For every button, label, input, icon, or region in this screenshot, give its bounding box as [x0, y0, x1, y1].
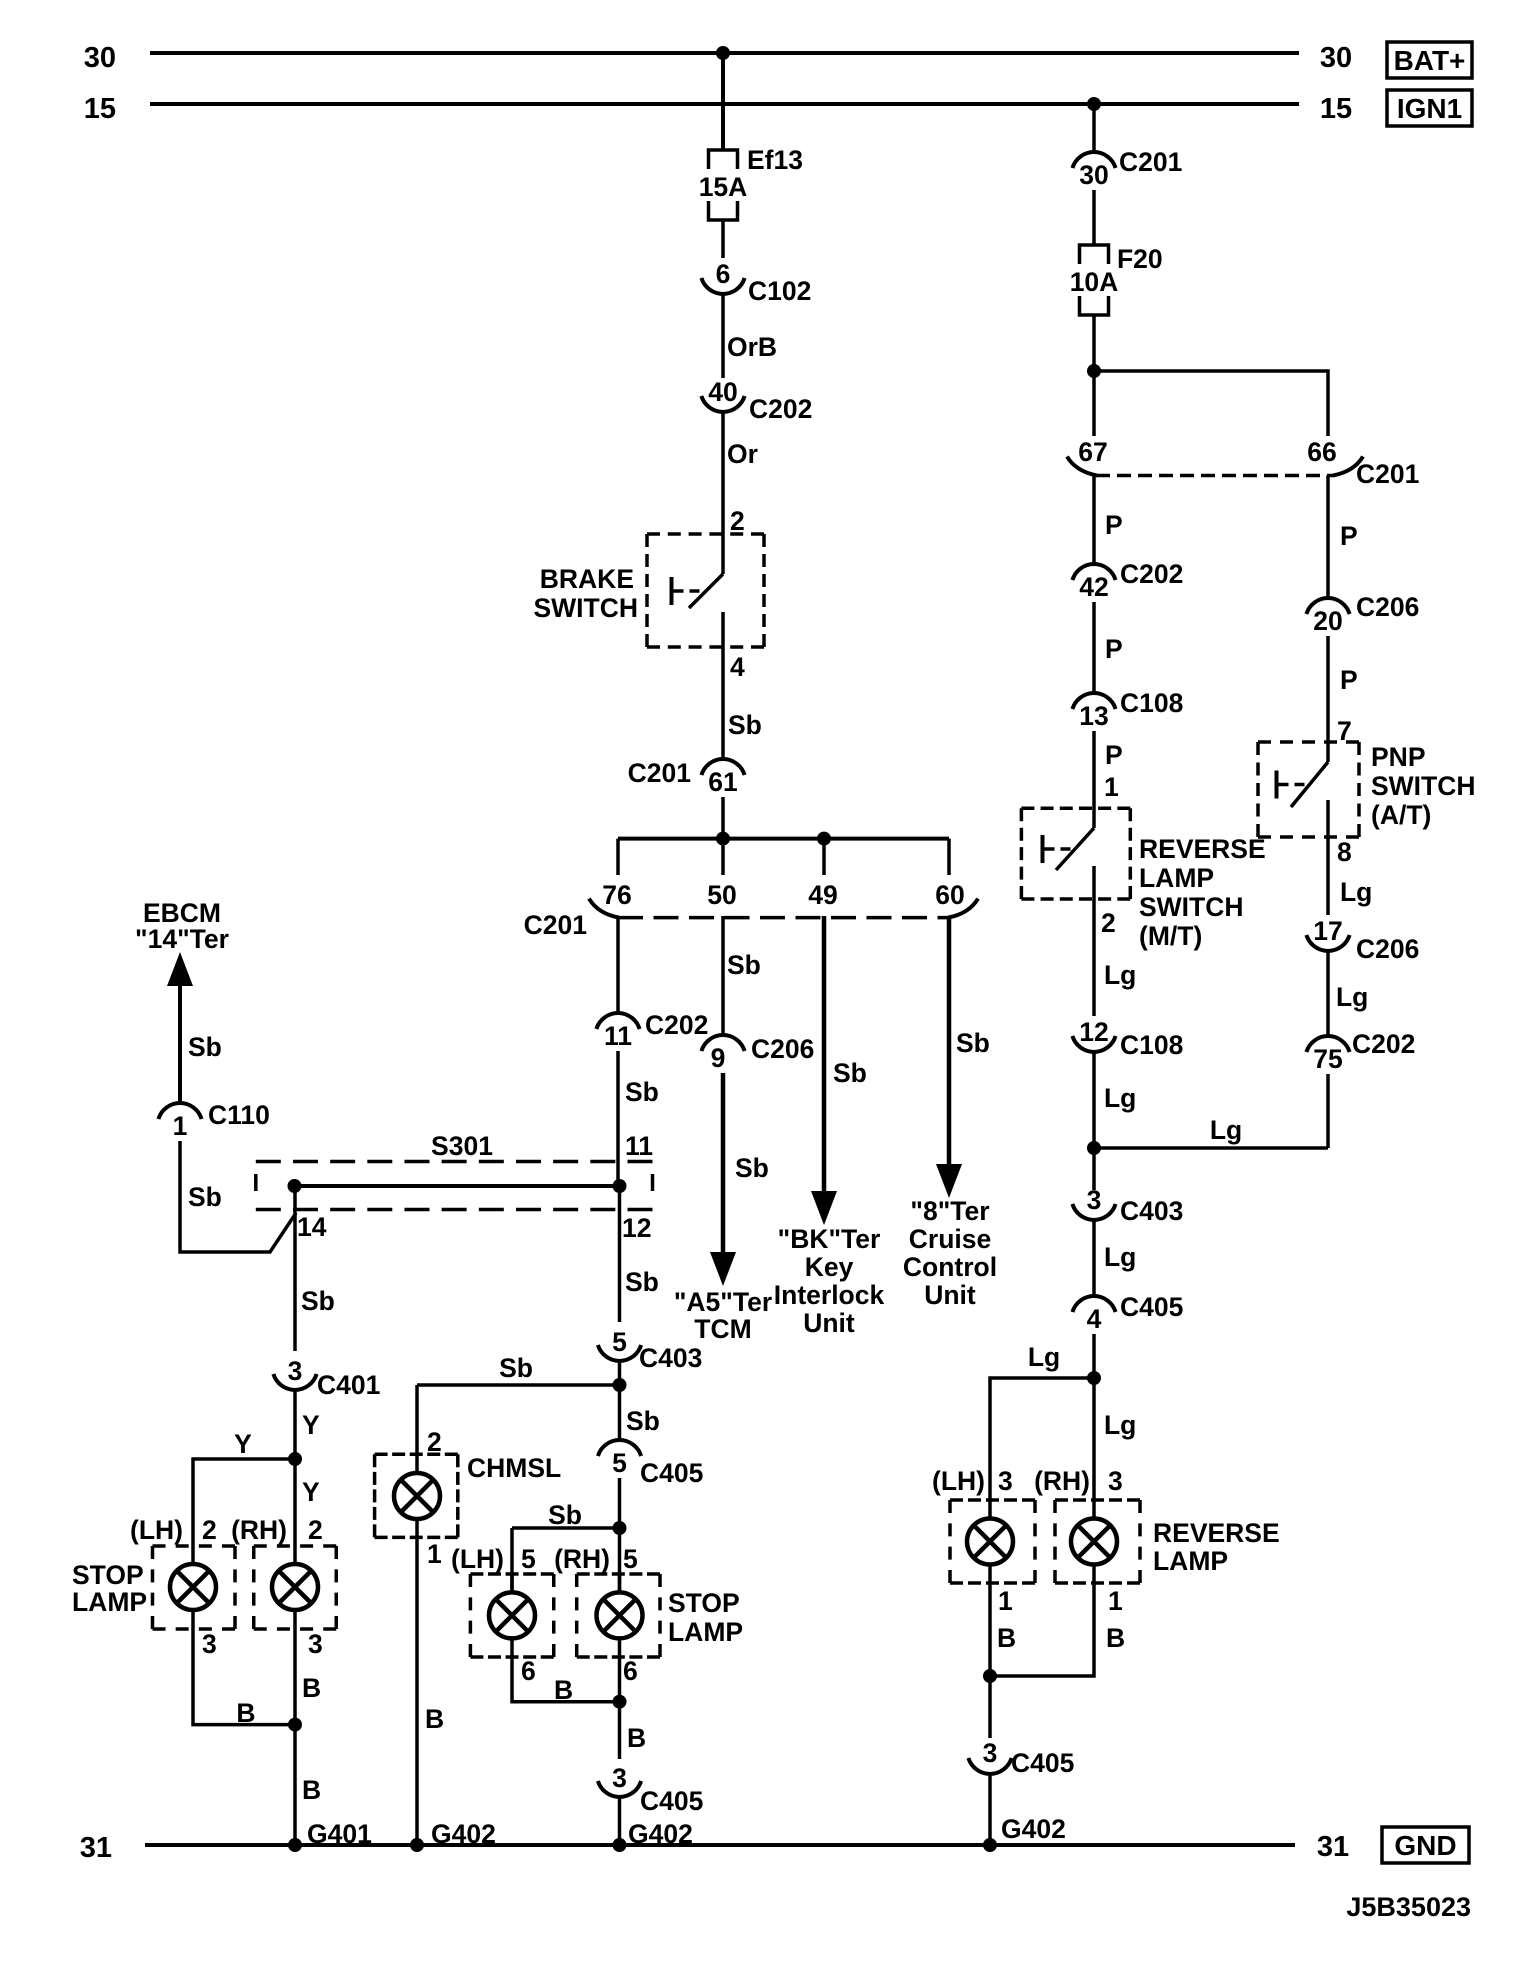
svg-text:3: 3	[308, 1629, 323, 1659]
connector C206 pin 17	[1306, 935, 1349, 951]
wire C405-5 to stop lamp junction	[618, 1478, 622, 1591]
connector C201 dashed body 76/50/49/60	[618, 916, 949, 920]
svg-text:6: 6	[716, 259, 731, 289]
svg-text:Cruise: Cruise	[909, 1224, 991, 1254]
svg-text:C102: C102	[748, 276, 811, 306]
wire Lg C108-12 to junction	[1092, 1052, 1096, 1190]
svg-text:2: 2	[202, 1515, 217, 1545]
svg-text:STOP: STOP	[668, 1588, 740, 1618]
svg-text:1: 1	[173, 1111, 188, 1141]
svg-text:Or: Or	[727, 439, 758, 469]
svg-text:B: B	[554, 1675, 573, 1705]
ground node G402 CHMSL	[410, 1838, 424, 1852]
connector C202 pin 11	[596, 1013, 639, 1029]
LH reverse lamp enclosure	[950, 1498, 1035, 1502]
splice S301 bar	[295, 1184, 620, 1188]
svg-text:61: 61	[708, 767, 737, 797]
svg-text:C110: C110	[208, 1100, 270, 1130]
svg-text:3: 3	[1108, 1466, 1123, 1496]
svg-text:(RH): (RH)	[554, 1544, 610, 1574]
svg-text:42: 42	[1079, 572, 1108, 602]
svg-text:Sb: Sb	[188, 1032, 222, 1062]
svg-text:C202: C202	[749, 394, 812, 424]
wire Sb C110 to splice S301 pin 14	[180, 1141, 296, 1252]
svg-text:C202: C202	[1120, 559, 1183, 589]
svg-text:12: 12	[622, 1213, 651, 1243]
svg-text:C403: C403	[1120, 1196, 1183, 1226]
wire Sb S301 pin 12 to C403 pin 5	[618, 1186, 622, 1322]
connector C405 pin 5	[598, 1440, 641, 1456]
svg-text:Unit: Unit	[924, 1280, 976, 1310]
svg-text:C201: C201	[628, 758, 691, 788]
svg-text:15: 15	[84, 93, 116, 125]
svg-text:3: 3	[1087, 1185, 1102, 1215]
RH rear stop lamp	[597, 1592, 643, 1638]
svg-text:3: 3	[202, 1629, 217, 1659]
svg-text:30: 30	[1320, 42, 1352, 74]
connector C405 pin 3 rear stop	[598, 1781, 641, 1797]
connector C401 pin 3	[273, 1374, 316, 1390]
svg-text:12: 12	[1079, 1017, 1108, 1047]
svg-text:Lg: Lg	[1210, 1115, 1242, 1145]
svg-text:2: 2	[730, 506, 745, 536]
wire Lg switch to C108 pin 12	[1092, 905, 1096, 1016]
svg-text:4: 4	[1087, 1304, 1102, 1334]
svg-text:(LH): (LH)	[451, 1544, 504, 1574]
wire B to ground G401	[293, 1725, 297, 1845]
svg-text:9: 9	[711, 1043, 726, 1073]
IGN1 terminal box	[1387, 90, 1472, 126]
junction on bus 15	[1087, 97, 1101, 111]
svg-text:(A/T): (A/T)	[1371, 800, 1431, 830]
wire Lg C202-75 to merge junction	[1326, 1074, 1330, 1148]
wire C403-5 to junction	[618, 1361, 622, 1440]
distribution bus above C201 multi-connector	[618, 837, 949, 841]
GND terminal box	[1382, 1827, 1469, 1863]
svg-text:Sb: Sb	[499, 1353, 533, 1383]
svg-text:B: B	[627, 1723, 646, 1753]
svg-text:8: 8	[1337, 837, 1352, 867]
svg-text:F20: F20	[1117, 244, 1163, 274]
svg-text:Lg: Lg	[1104, 1410, 1136, 1440]
svg-text:Lg: Lg	[1340, 877, 1372, 907]
stub wire to pin 49	[822, 839, 826, 875]
svg-text:P: P	[1105, 740, 1123, 770]
svg-text:Lg: Lg	[1104, 1083, 1136, 1113]
svg-text:"A5"Ter: "A5"Ter	[674, 1287, 772, 1317]
svg-text:"8"Ter: "8"Ter	[910, 1196, 989, 1226]
RH front stop lamp	[272, 1564, 318, 1610]
junction stop lamp branch	[613, 1521, 627, 1535]
svg-text:11: 11	[625, 1131, 653, 1161]
wire Sb brake switch to C201 pin 61	[721, 655, 725, 759]
wire P C202-42 to C108 pin 13	[1092, 602, 1096, 693]
PNP switch contacts	[1326, 742, 1330, 762]
svg-text:IGN1: IGN1	[1397, 93, 1462, 124]
svg-text:LAMP: LAMP	[1139, 863, 1214, 893]
svg-text:"BK"Ter: "BK"Ter	[778, 1224, 881, 1254]
splice S301 enclosure	[256, 1160, 653, 1164]
svg-text:STOP: STOP	[72, 1560, 144, 1590]
svg-text:(RH): (RH)	[231, 1515, 287, 1545]
connector C206 pin 20	[1306, 598, 1349, 614]
svg-text:PNP: PNP	[1371, 742, 1426, 772]
connector C201 pin 30	[1072, 152, 1115, 168]
svg-text:2: 2	[427, 1427, 442, 1457]
svg-text:Sb: Sb	[956, 1028, 990, 1058]
CHMSL lamp	[394, 1473, 440, 1519]
stub wire to pin 50	[721, 839, 725, 875]
wire B CHMSL to ground G402	[415, 1521, 419, 1845]
svg-text:C201: C201	[1119, 147, 1182, 177]
S301 left node	[288, 1179, 302, 1193]
svg-text:Sb: Sb	[188, 1182, 222, 1212]
wire OrB C102 to C202	[721, 294, 725, 378]
ground node G402 rear stop	[613, 1838, 627, 1852]
svg-text:C206: C206	[1356, 592, 1419, 622]
svg-text:OrB: OrB	[727, 332, 777, 362]
wire B LH rear stop lamp to merge	[512, 1657, 620, 1702]
svg-text:75: 75	[1313, 1044, 1342, 1074]
svg-text:Lg: Lg	[1104, 1242, 1136, 1272]
svg-text:15: 15	[1320, 93, 1352, 125]
svg-text:Y: Y	[302, 1477, 320, 1507]
svg-text:C108: C108	[1120, 1030, 1183, 1060]
wire C405-3 to ground G402 reverse	[988, 1774, 992, 1845]
wire P pin 67 to C202 pin 42	[1092, 476, 1096, 565]
LH reverse lamp	[967, 1519, 1013, 1565]
ground node G401	[288, 1838, 302, 1852]
svg-text:15A: 15A	[699, 172, 748, 202]
svg-text:20: 20	[1313, 606, 1342, 636]
LH front stop lamp enclosure	[153, 1544, 236, 1548]
svg-text:B: B	[302, 1775, 321, 1805]
svg-text:3: 3	[288, 1356, 303, 1386]
reverse lamp switch enclosure	[1021, 807, 1130, 811]
wire Sb S301 pin 14 to C401	[293, 1186, 297, 1351]
svg-text:C108: C108	[1120, 688, 1183, 718]
svg-text:5: 5	[612, 1448, 627, 1478]
svg-text:Sb: Sb	[735, 1153, 769, 1183]
junction at wire 49	[817, 832, 831, 846]
RH reverse lamp	[1071, 1519, 1117, 1565]
bus 15 IGN1 rail	[150, 102, 1299, 106]
svg-text:Sb: Sb	[727, 950, 761, 980]
svg-text:3: 3	[998, 1466, 1013, 1496]
connector C202 pin 40	[701, 396, 744, 412]
wire C405-3 to ground G402	[618, 1797, 622, 1845]
branch wire Y to LH front stop lamp	[193, 1459, 295, 1546]
wire P pin 66 to C206 pin 20	[1326, 476, 1330, 599]
wire Sb C202-11 to S301 pin 11	[616, 1051, 620, 1186]
svg-text:66: 66	[1307, 437, 1336, 467]
wire B RH rear stop lamp down	[618, 1657, 622, 1759]
svg-text:SWITCH: SWITCH	[1371, 771, 1476, 801]
svg-text:14: 14	[297, 1212, 327, 1242]
svg-text:Control: Control	[903, 1252, 997, 1282]
junction front stop lamps	[288, 1452, 302, 1466]
ground node G402 reverse	[983, 1838, 997, 1852]
connector C201 pin 61	[701, 759, 744, 775]
svg-text:C202: C202	[1352, 1029, 1415, 1059]
svg-text:10A: 10A	[1070, 267, 1119, 297]
wire P C206-20 to PNP switch	[1326, 636, 1330, 742]
svg-text:C206: C206	[1356, 934, 1419, 964]
svg-text:4: 4	[730, 652, 745, 682]
wire fuse F20 to split junction	[1092, 315, 1096, 371]
bus 30 BAT+ rail	[150, 51, 1299, 55]
svg-text:B: B	[425, 1704, 444, 1734]
wire stub to pin 67	[1092, 371, 1096, 436]
svg-text:17: 17	[1313, 916, 1342, 946]
connector C201 dashed body 67/66	[1096, 474, 1334, 478]
svg-text:C405: C405	[640, 1786, 703, 1816]
svg-text:2: 2	[308, 1515, 323, 1545]
svg-text:(LH): (LH)	[932, 1466, 985, 1496]
arrow to EBCM 14 terminal	[167, 952, 193, 986]
brake switch contacts	[721, 572, 725, 576]
junction on bus 30	[716, 46, 730, 60]
svg-text:(M/T): (M/T)	[1139, 921, 1202, 951]
wire bus15 to C201 pin 30	[1092, 104, 1096, 152]
connector C110 pin 1	[158, 1103, 201, 1119]
svg-text:30: 30	[1079, 160, 1108, 190]
svg-text:(RH): (RH)	[1034, 1466, 1090, 1496]
arrow to A5 terminal TCM	[710, 1252, 736, 1286]
connector C403 pin 3	[1072, 1204, 1115, 1220]
svg-text:C201: C201	[524, 910, 587, 940]
svg-text:P: P	[1340, 521, 1358, 551]
svg-text:C202: C202	[645, 1010, 708, 1040]
svg-text:REVERSE: REVERSE	[1153, 1518, 1280, 1548]
svg-text:5: 5	[521, 1544, 536, 1574]
branch wire Lg to LH reverse lamp	[990, 1378, 1094, 1500]
bus 31 GND rail	[145, 1843, 1295, 1847]
svg-text:1: 1	[1104, 772, 1119, 802]
svg-text:SWITCH: SWITCH	[1139, 892, 1244, 922]
junction M/T A/T merge	[1087, 1141, 1101, 1155]
branch wire Lg from C202 pin 75	[1094, 1146, 1328, 1150]
junction at wire 50	[716, 832, 730, 846]
wire Lg C206-17 to C202 pin 75	[1326, 951, 1330, 1036]
svg-text:C405: C405	[1011, 1748, 1074, 1778]
svg-text:60: 60	[935, 880, 964, 910]
svg-text:P: P	[1105, 510, 1123, 540]
svg-text:C405: C405	[1120, 1292, 1183, 1322]
svg-text:31: 31	[80, 1832, 112, 1864]
svg-text:TCM: TCM	[694, 1314, 751, 1344]
svg-text:Sb: Sb	[548, 1500, 582, 1530]
svg-text:(LH): (LH)	[130, 1515, 183, 1545]
svg-text:3: 3	[612, 1763, 627, 1793]
branch wire Sb to CHMSL	[417, 1383, 620, 1387]
connector C108 pin 13	[1072, 693, 1115, 709]
wire to LH rear stop lamp	[510, 1528, 514, 1591]
merge junction rear stop lamps	[613, 1695, 627, 1709]
svg-text:J5B35023: J5B35023	[1346, 1892, 1471, 1922]
wire C405-4 to reverse lamp junction	[1092, 1334, 1096, 1500]
svg-text:P: P	[1105, 634, 1123, 664]
branch wire Sb to LH stop lamp	[512, 1526, 620, 1530]
svg-text:Key: Key	[805, 1252, 854, 1282]
wire Sb EBCM arrow to C110	[178, 980, 182, 1103]
PNP switch enclosure	[1258, 740, 1359, 744]
svg-text:C405: C405	[640, 1458, 703, 1488]
svg-text:40: 40	[708, 377, 737, 407]
svg-text:30: 30	[84, 42, 116, 74]
svg-text:LAMP: LAMP	[72, 1587, 147, 1617]
connector C206 pin 9	[701, 1035, 744, 1051]
svg-text:5: 5	[612, 1327, 627, 1357]
RH rear stop lamp enclosure	[577, 1572, 660, 1576]
wire C201-61 to distribution node	[721, 797, 725, 839]
svg-text:1: 1	[1108, 1586, 1123, 1616]
brake switch enclosure	[647, 532, 764, 536]
wire Or C202 to brake switch pin 2	[721, 412, 725, 574]
svg-text:BAT+: BAT+	[1394, 45, 1466, 76]
svg-text:13: 13	[1079, 701, 1108, 731]
split junction for pins 67/66	[1087, 364, 1101, 378]
svg-text:Sb: Sb	[728, 710, 762, 740]
stub wire to pin 76	[616, 839, 620, 875]
S301 right node	[613, 1179, 627, 1193]
svg-text:B: B	[302, 1673, 321, 1703]
arrow to 8 terminal Cruise Control Unit	[936, 1164, 962, 1198]
svg-text:49: 49	[808, 880, 837, 910]
svg-text:LAMP: LAMP	[668, 1617, 743, 1647]
svg-text:C201: C201	[1356, 459, 1419, 489]
svg-text:SWITCH: SWITCH	[533, 593, 638, 623]
wire to pin 66 branch	[1094, 371, 1328, 436]
connector C405 pin 4	[1072, 1296, 1115, 1312]
svg-text:6: 6	[623, 1656, 638, 1686]
wire CHMSL branch down	[415, 1385, 419, 1471]
wire fuse Ef13 to C102	[721, 220, 725, 258]
svg-text:C206: C206	[751, 1034, 814, 1064]
BAT+ terminal box	[1387, 42, 1472, 78]
svg-text:B: B	[997, 1623, 1016, 1653]
wire B LH reverse lamp down	[988, 1583, 992, 1738]
svg-text:G402: G402	[1001, 1814, 1066, 1844]
svg-text:2: 2	[1101, 908, 1116, 938]
wire B RH reverse lamp to merge	[990, 1583, 1094, 1676]
svg-text:67: 67	[1078, 437, 1107, 467]
svg-text:Lg: Lg	[1104, 960, 1136, 990]
svg-text:Sb: Sb	[625, 1267, 659, 1297]
connector C102 pin 6	[701, 278, 744, 294]
svg-text:Sb: Sb	[301, 1286, 335, 1316]
svg-text:Sb: Sb	[833, 1058, 867, 1088]
wire Lg C403-3 to C405 pin 4	[1092, 1220, 1096, 1296]
fuse Ef13 15A	[709, 150, 738, 169]
svg-text:6: 6	[521, 1656, 536, 1686]
wire B LH front stop lamp to merge	[193, 1629, 295, 1725]
CHMSL enclosure	[375, 1453, 458, 1457]
svg-text:BRAKE: BRAKE	[540, 564, 634, 594]
merge junction front stop lamps	[288, 1718, 302, 1732]
arrow to BK terminal Key Interlock Unit	[811, 1191, 837, 1225]
LH rear stop lamp enclosure	[470, 1572, 553, 1576]
RH front stop lamp enclosure	[254, 1544, 337, 1548]
reverse lamp switch contacts	[1092, 808, 1096, 828]
merge junction reverse lamps	[983, 1669, 997, 1683]
svg-text:Interlock: Interlock	[774, 1280, 885, 1310]
svg-text:11: 11	[604, 1021, 632, 1051]
wire Y C401 to junction	[293, 1390, 297, 1459]
svg-text:Sb: Sb	[626, 1406, 660, 1436]
svg-text:Lg: Lg	[1336, 982, 1368, 1012]
svg-text:GND: GND	[1394, 1830, 1456, 1861]
svg-text:Unit: Unit	[803, 1308, 855, 1338]
svg-text:50: 50	[707, 880, 736, 910]
wire Sb C206-9 to TCM arrow	[721, 1073, 726, 1258]
fuse F20 10A	[1080, 245, 1109, 264]
wire B RH front stop lamp down	[293, 1629, 297, 1725]
wire Y junction to RH front stop lamp	[293, 1459, 297, 1546]
svg-text:REVERSE: REVERSE	[1139, 834, 1266, 864]
junction to CHMSL branch	[613, 1378, 627, 1392]
svg-text:P: P	[1340, 665, 1358, 695]
svg-text:Y: Y	[234, 1429, 252, 1459]
connector C202 pin 75	[1306, 1036, 1349, 1052]
svg-text:B: B	[1106, 1623, 1125, 1653]
svg-text:Ef13: Ef13	[747, 145, 803, 175]
junction reverse lamps	[1087, 1371, 1101, 1385]
svg-text:C401: C401	[317, 1370, 380, 1400]
svg-text:B: B	[236, 1698, 255, 1728]
connector C403 pin 5	[598, 1345, 641, 1361]
svg-text:Y: Y	[302, 1410, 320, 1440]
svg-text:31: 31	[1317, 1831, 1349, 1863]
wire Lg PNP switch to C206 pin 17	[1326, 845, 1330, 915]
connector C405 pin 3 reverse	[968, 1758, 1011, 1774]
svg-text:Sb: Sb	[625, 1077, 659, 1107]
svg-text:3: 3	[983, 1738, 998, 1768]
LH front stop lamp	[170, 1564, 216, 1610]
svg-text:76: 76	[602, 880, 631, 910]
svg-text:"14"Ter: "14"Ter	[135, 924, 229, 954]
svg-text:5: 5	[623, 1544, 638, 1574]
connector C202 pin 42	[1072, 564, 1115, 580]
LH rear stop lamp	[489, 1592, 535, 1638]
svg-text:1: 1	[998, 1586, 1013, 1616]
svg-text:Lg: Lg	[1028, 1342, 1060, 1372]
svg-text:LAMP: LAMP	[1153, 1546, 1228, 1576]
stub wire to pin 60	[947, 839, 951, 875]
svg-text:CHMSL: CHMSL	[467, 1453, 561, 1483]
svg-text:1: 1	[427, 1539, 442, 1569]
svg-text:S301: S301	[431, 1131, 493, 1161]
connector C108 pin 12	[1072, 1036, 1115, 1052]
wire C201-30 to fuse F20	[1092, 190, 1096, 245]
RH reverse lamp enclosure	[1055, 1498, 1140, 1502]
wire bus30 to fuse Ef13	[721, 53, 725, 150]
svg-text:C403: C403	[639, 1343, 702, 1373]
wire P C108-13 to reverse lamp switch	[1092, 731, 1096, 808]
